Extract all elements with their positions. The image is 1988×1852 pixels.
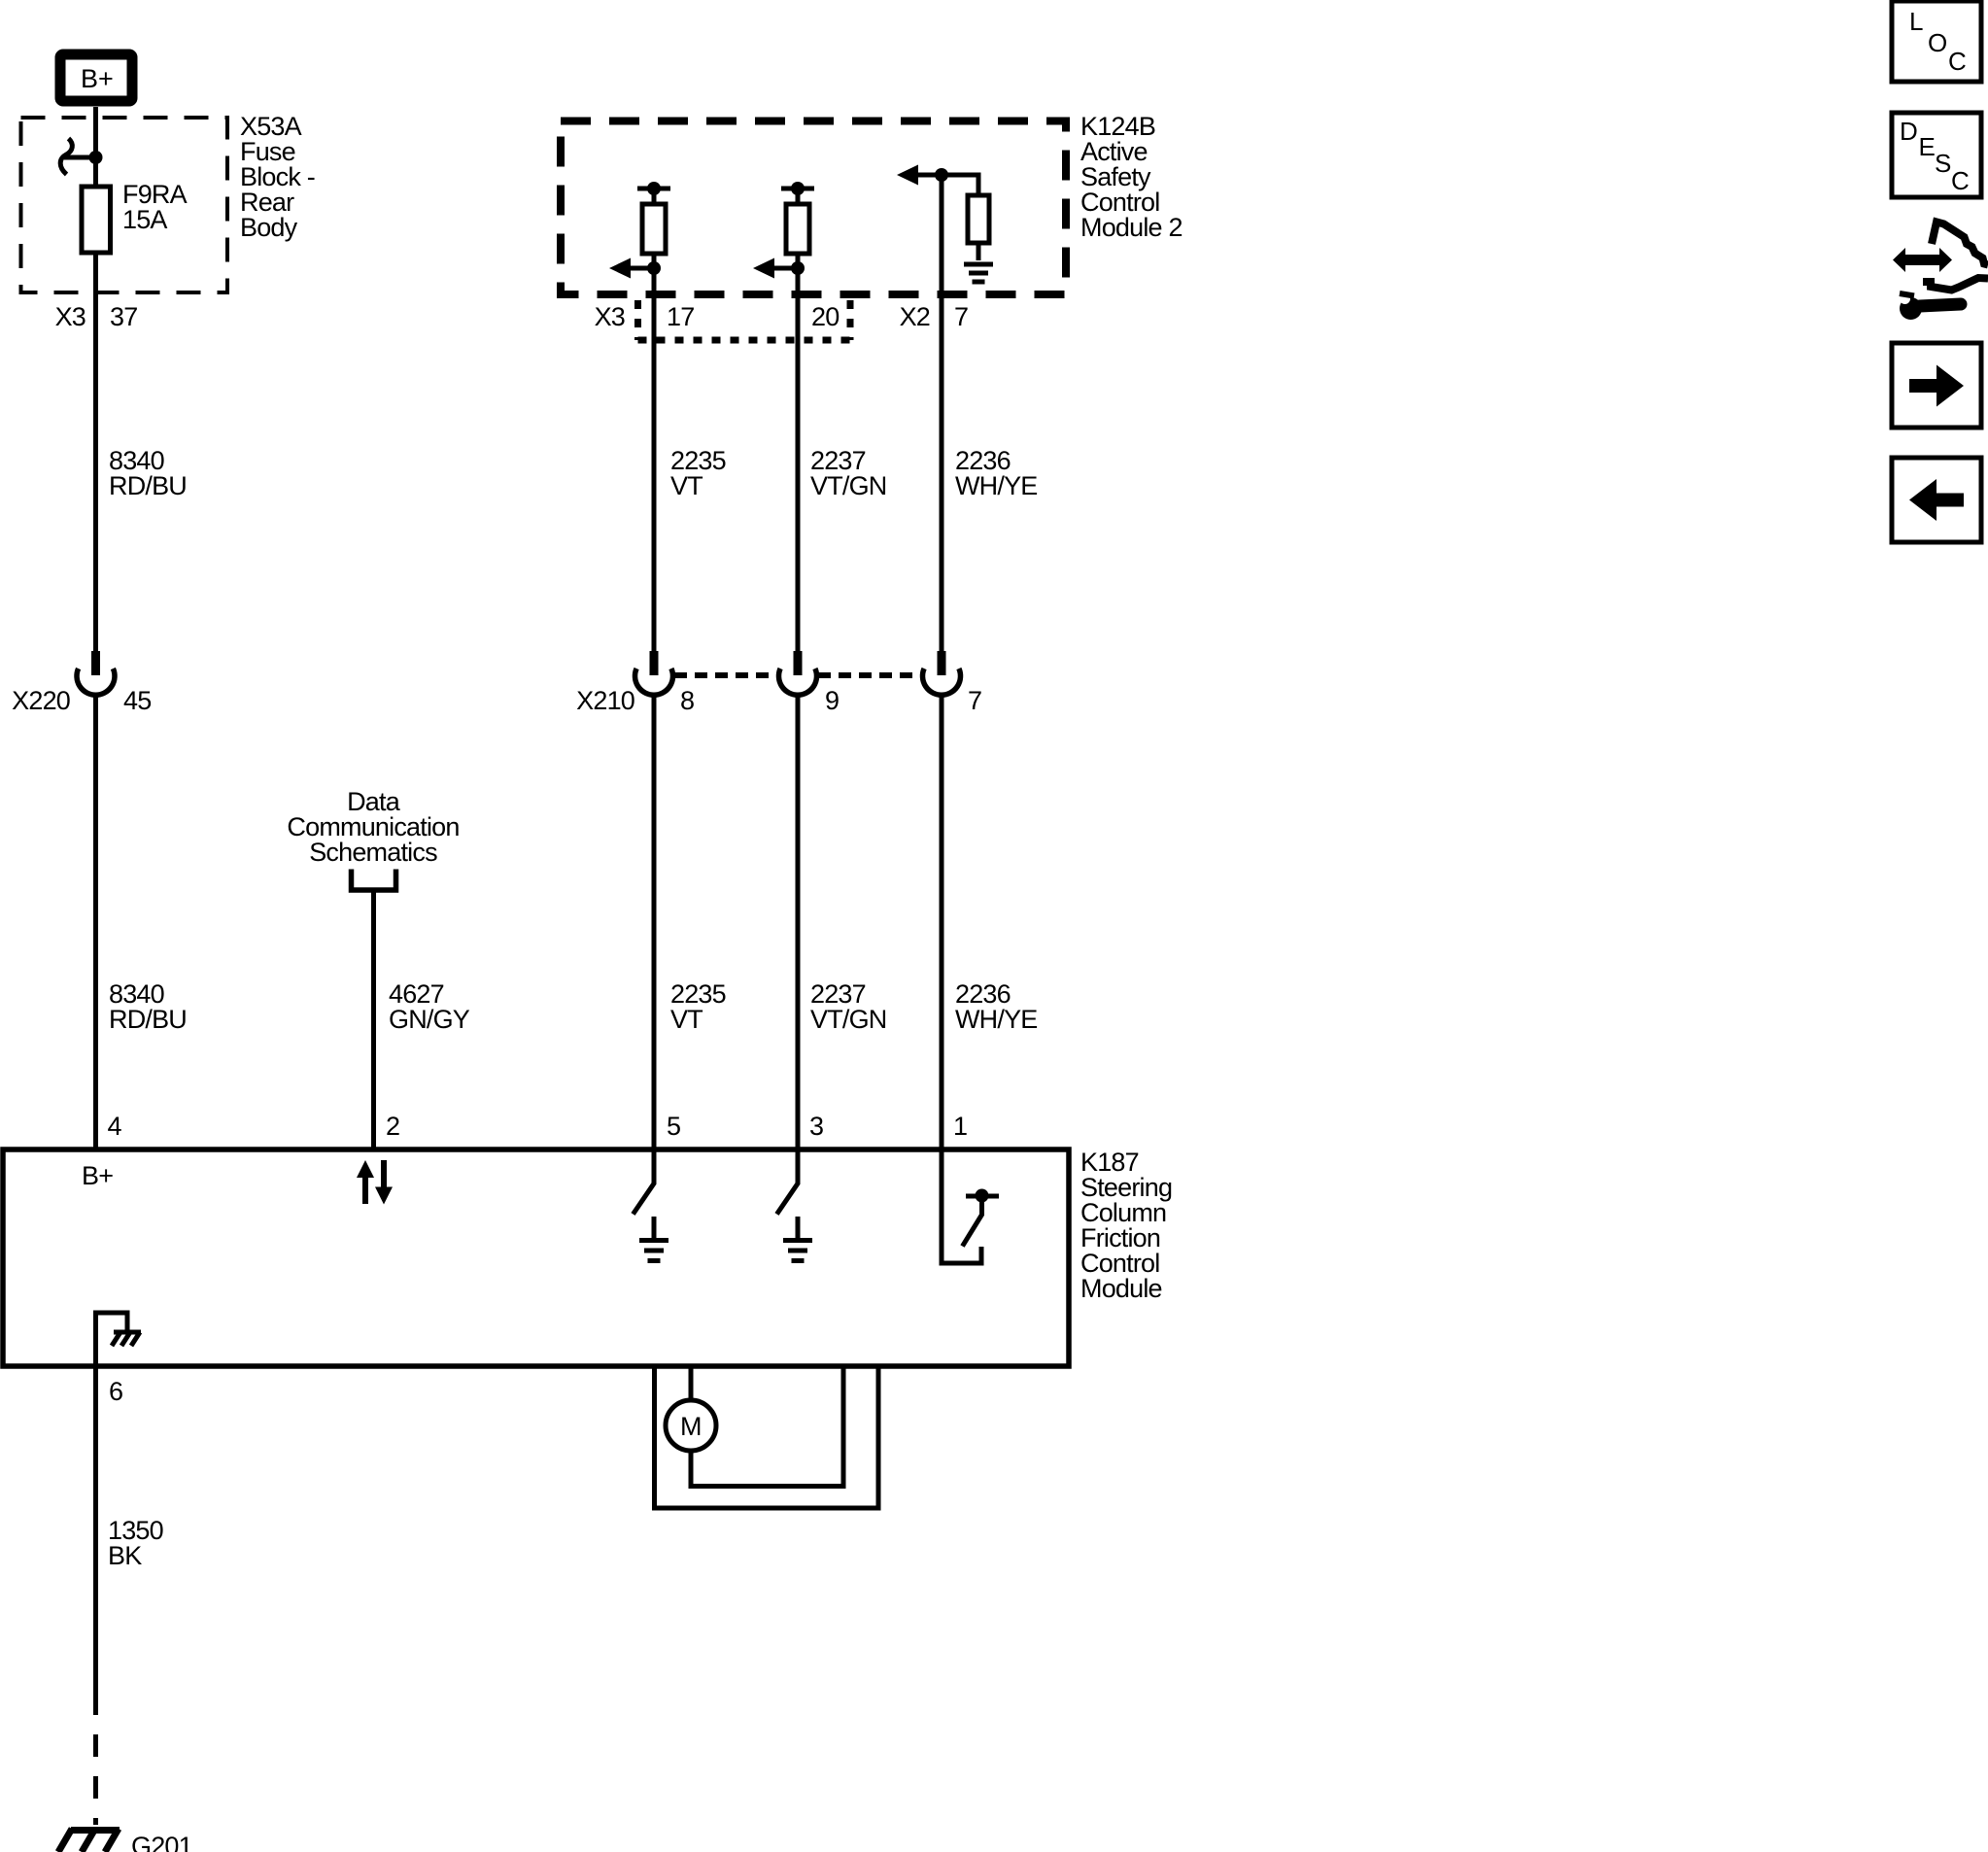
svg-text:Module: Module	[1080, 1274, 1162, 1303]
svg-text:37: 37	[110, 302, 137, 331]
svg-text:3: 3	[809, 1112, 823, 1141]
svg-text:M: M	[680, 1412, 703, 1441]
svg-text:X3: X3	[55, 302, 86, 331]
svg-text:RD/BU: RD/BU	[109, 471, 187, 500]
svg-text:9: 9	[825, 686, 839, 715]
svg-text:15A: 15A	[122, 205, 167, 234]
svg-text:X210: X210	[576, 686, 634, 715]
svg-text:C: C	[1948, 47, 1967, 76]
svg-text:4: 4	[108, 1112, 122, 1141]
svg-text:VT/GN: VT/GN	[810, 1005, 887, 1034]
svg-text:G201: G201	[131, 1832, 192, 1852]
svg-text:VT: VT	[670, 1005, 703, 1034]
svg-text:B+: B+	[81, 64, 114, 93]
svg-text:B+: B+	[82, 1161, 113, 1190]
svg-text:7: 7	[954, 302, 968, 331]
svg-text:WH/YE: WH/YE	[955, 471, 1038, 500]
svg-text:WH/YE: WH/YE	[955, 1005, 1038, 1034]
svg-text:Body: Body	[240, 213, 298, 242]
svg-text:D: D	[1900, 117, 1918, 146]
svg-text:X2: X2	[900, 302, 930, 331]
svg-text:O: O	[1928, 28, 1947, 57]
svg-text:X220: X220	[12, 686, 70, 715]
svg-text:1: 1	[953, 1112, 967, 1141]
svg-text:8: 8	[680, 686, 694, 715]
svg-text:7: 7	[968, 686, 981, 715]
svg-text:20: 20	[811, 302, 839, 331]
svg-text:5: 5	[667, 1112, 680, 1141]
svg-text:S: S	[1935, 149, 1951, 178]
svg-text:45: 45	[123, 686, 151, 715]
svg-text:VT/GN: VT/GN	[810, 471, 887, 500]
svg-text:X3: X3	[595, 302, 625, 331]
svg-text:RD/BU: RD/BU	[109, 1005, 187, 1034]
svg-text:17: 17	[667, 302, 694, 331]
svg-text:2: 2	[386, 1112, 399, 1141]
svg-text:C: C	[1951, 166, 1970, 195]
svg-text:E: E	[1919, 132, 1936, 161]
svg-text:Schematics: Schematics	[309, 838, 437, 867]
svg-text:Module 2: Module 2	[1080, 213, 1183, 242]
svg-text:L: L	[1909, 7, 1923, 36]
svg-text:BK: BK	[108, 1541, 142, 1570]
svg-text:VT: VT	[670, 471, 703, 500]
svg-text:6: 6	[109, 1377, 122, 1406]
svg-text:GN/GY: GN/GY	[389, 1005, 470, 1034]
